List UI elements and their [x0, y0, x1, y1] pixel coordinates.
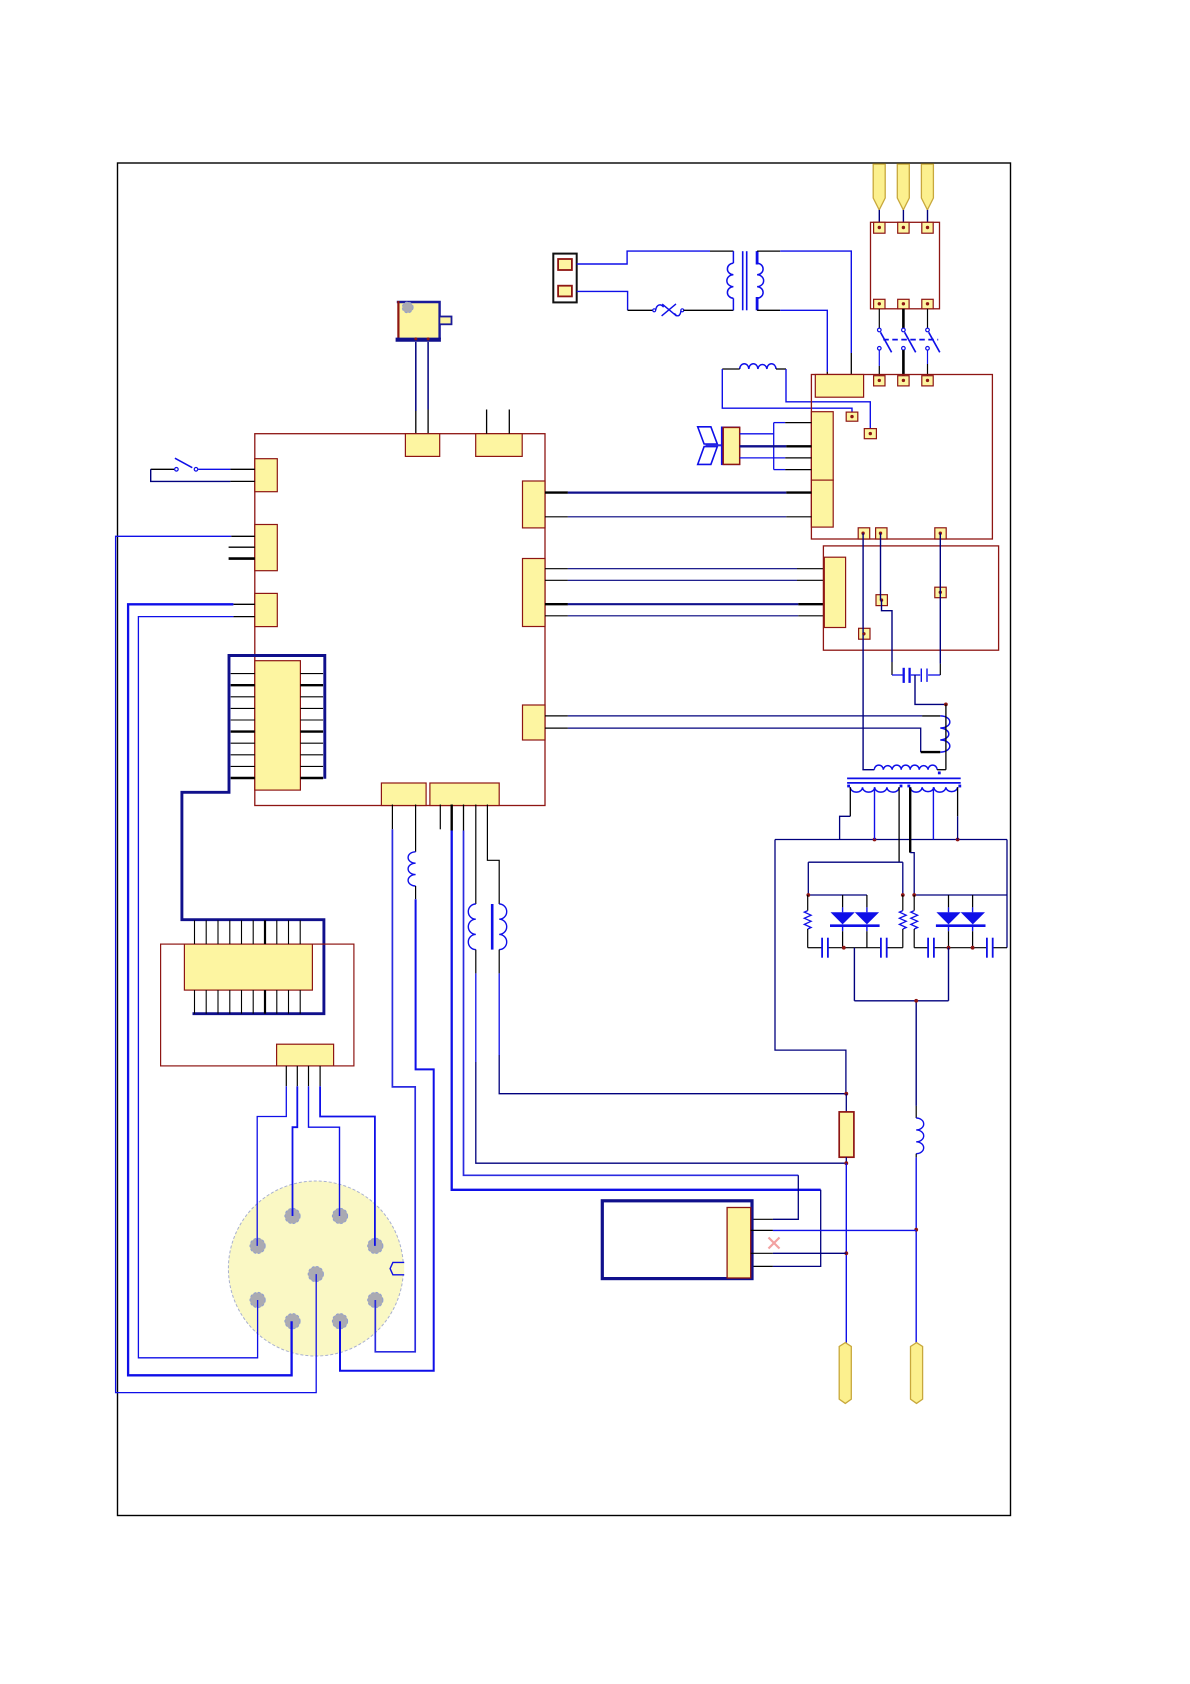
- capacitor C6: [986, 938, 988, 958]
- U1 pad B2: [430, 783, 499, 806]
- U1 pad R2: [523, 559, 546, 627]
- switch S2 poles: [878, 328, 882, 332]
- wire net P2d to resistor R2 bottom: [475, 950, 477, 974]
- connector J1 pin2: [558, 286, 572, 297]
- wire net P2b thick to relay pin4: [451, 805, 453, 831]
- wire C1 to C2: [911, 674, 920, 676]
- junction dot left rail: [806, 893, 810, 897]
- wire S1 to U1 pad L1 top: [198, 468, 230, 470]
- junction dot right bottom rail2: [971, 946, 975, 950]
- capacitor C2: [920, 669, 922, 682]
- capacitor C4: [880, 938, 882, 958]
- capacitor C1: [903, 668, 905, 683]
- U1 pad T2: [476, 434, 523, 457]
- wire T2 sec-right mid tap: [932, 787, 934, 839]
- wire U1 R3 pin2 to choke L3 bottom: [545, 727, 568, 729]
- wires contactor to switch S2: [878, 309, 880, 328]
- wire fan pin3 to board B: [740, 457, 786, 459]
- board B left pad upper: [811, 412, 833, 480]
- relay pin2 wire to E2 net: [751, 1229, 773, 1231]
- blade terminal E2: [911, 1343, 923, 1404]
- wire T1 secondary bottom to board B pad: [757, 309, 780, 311]
- fan connector: [722, 427, 739, 464]
- round connector body: [228, 1181, 403, 1356]
- wires switch S2 to board B pads: [878, 350, 880, 366]
- transformer T2 primary winding: [874, 765, 937, 770]
- choke T3 left winding: [468, 904, 476, 950]
- fan hub: [706, 444, 722, 446]
- transformer T2 primary lead left: [862, 769, 874, 771]
- choke L3: [940, 716, 950, 752]
- choke T3 right winding lead: [487, 805, 499, 905]
- wire board B pad1 to transformer T2 primary: [862, 533, 864, 770]
- board B pin pad P2: [864, 429, 876, 439]
- wire LCD pin1 to round connector upper-left pin: [257, 1086, 286, 1246]
- transformer T2 polarity dots secondary: [847, 785, 850, 788]
- wire net P2c to relay pin1: [463, 805, 465, 831]
- board C pin pad Q3: [859, 628, 870, 639]
- wire M1 pin2 to U1 top pad: [427, 342, 429, 410]
- wire fan branch to board B pin4: [774, 469, 786, 471]
- switch S1 blade: [175, 458, 192, 468]
- junction dot rail left tap: [873, 838, 877, 842]
- relay K1 no-connect cross: [769, 1238, 780, 1249]
- wire LCD pin2 to round connector top-left pin: [293, 1086, 298, 1216]
- relay K1 terminal pad: [727, 1208, 751, 1279]
- ribbon header pins right: [300, 673, 323, 675]
- wire LCD pin4 to round connector upper-right pin: [320, 1086, 375, 1246]
- diac D1 leads: [842, 895, 844, 907]
- snubber left bottom rail: [808, 947, 822, 949]
- board B pin pad P1: [846, 412, 858, 421]
- junction dot T2 primary right: [944, 703, 948, 707]
- wire M1 pin1 to U1 top pad: [415, 342, 417, 411]
- U1 pad L2: [255, 525, 277, 571]
- wire net P2e to resistor R2 top: [498, 950, 500, 974]
- wire U1 R3 pin1 to choke L3 top: [545, 715, 568, 717]
- round connector pins: [285, 1208, 300, 1223]
- wire net P1a to round connector lower-right pin: [375, 829, 415, 1352]
- wire snubber rail horizontal: [775, 839, 1007, 841]
- wire snubber to resistor node: [775, 840, 846, 1094]
- junction dot snubber common: [914, 999, 918, 1003]
- U1 pad B1 pin2 lead: [415, 805, 417, 852]
- wire bus3 pad L3 pin2 to round connector lower-left pin: [233, 616, 254, 618]
- wire U1 R2 pin1 to board C: [545, 568, 568, 570]
- wire T2 sec-left left lead: [849, 787, 851, 816]
- diac D2 leads: [948, 895, 950, 907]
- wire net P1b to round connector bottom-right pin: [415, 886, 417, 899]
- fan blade bottom: [698, 447, 718, 465]
- wire C2 to board C pad Q2: [928, 674, 940, 676]
- wire U1 R2 pin2 to board C: [545, 579, 568, 581]
- wire rail right drop: [1006, 840, 1008, 948]
- main board U1 outline: [255, 434, 545, 806]
- module M1 pin dots: [414, 337, 417, 340]
- transformer T2 polarity dot primary: [938, 772, 941, 775]
- board B outline: [811, 375, 992, 540]
- U1 pad B1: [381, 783, 426, 806]
- diac D1 body: [831, 912, 855, 924]
- board C pin pad Q1: [876, 595, 887, 606]
- choke T3 core bar: [491, 904, 494, 950]
- junction dot right bottom rail: [947, 946, 951, 950]
- wire capacitor midpoint to junction: [915, 675, 946, 704]
- resistor R3 snubber left: [807, 895, 809, 911]
- contactor A1 top pads: [874, 222, 885, 233]
- U1 pad L2 pin3 stub thick: [229, 557, 255, 560]
- board C left pad: [824, 557, 845, 627]
- board B bottom pads: [858, 528, 870, 539]
- wire J1 pin2 to fuse: [577, 291, 628, 310]
- junction dot board C pad Q3: [863, 633, 865, 635]
- switch S1 left wire: [151, 468, 175, 470]
- wire L2 left to pin pad P1: [722, 369, 852, 414]
- blade terminal E3: [873, 164, 885, 210]
- wires blades to contactor A1: [878, 210, 880, 222]
- relay pin3 wire to E1 net: [751, 1252, 773, 1254]
- connector J1 pin1: [558, 259, 572, 270]
- wire junction to T2 primary right: [945, 704, 947, 769]
- wire T2 sec-right right lead: [957, 787, 959, 816]
- relay K1 outline: [602, 1201, 752, 1279]
- board B top pad: [815, 375, 863, 398]
- contactor A1 bottom pads: [874, 299, 885, 309]
- wire resistor bottom to blade E1: [845, 1163, 847, 1342]
- wire S1 bottom return: [151, 469, 231, 481]
- wire board C pad Q1 to capacitor C1: [882, 600, 893, 662]
- board C pin pad Q2: [935, 587, 946, 598]
- choke T3 left winding lead: [475, 805, 477, 905]
- resistor R5 snubber right: [913, 895, 915, 911]
- connector J1 outline: [553, 254, 576, 303]
- U1 pad B2 stub pin: [439, 805, 441, 830]
- transformer T1 secondary: [756, 251, 759, 264]
- U1 pad L2 pin2 stub: [229, 546, 255, 548]
- diac D2 body: [936, 912, 960, 924]
- transformer T2 core: [847, 777, 961, 779]
- wire T2 sec-left mid tap: [874, 787, 876, 839]
- page border frame: [118, 163, 1011, 1516]
- U1 ribbon header: [255, 661, 301, 790]
- junction dot relay pin3 node: [844, 1251, 848, 1255]
- LCD pad pins: [285, 1066, 287, 1086]
- wire L2 right to pin pad P2: [786, 369, 870, 430]
- junction dot resistor R4 top: [901, 893, 905, 897]
- U1 pad R1: [523, 481, 546, 528]
- snubber right top rail: [914, 894, 1007, 896]
- module M1 side tab: [439, 317, 451, 325]
- fuse F1: [653, 309, 656, 312]
- wire U1 R2 pin3 thick to board C: [545, 603, 568, 605]
- U1 pad L1: [255, 459, 277, 492]
- LCD display module: [184, 944, 312, 990]
- capacitor C3: [821, 938, 823, 958]
- U1 pad T2 stub pins: [486, 410, 488, 434]
- inductor L2: [740, 364, 776, 369]
- ribbon cable outline: [182, 656, 325, 1014]
- blade terminal E1: [839, 1343, 851, 1404]
- snubber right bottom rail: [914, 947, 927, 949]
- wire bus2 pad L3 pin1 to round connector bottom-left pin: [233, 603, 254, 605]
- junction dot left bottom rail: [842, 946, 846, 950]
- junction dot right rail: [912, 893, 916, 897]
- wire sec-left node horizontal: [808, 861, 903, 863]
- wire fuse to T1 primary bottom: [684, 309, 734, 311]
- switch S2 linkage dashed: [883, 339, 938, 341]
- module M1 body: [397, 301, 439, 341]
- wire U1 R2 pin4 to board C: [545, 615, 568, 617]
- U1 pad B1 pin1 stub: [391, 805, 393, 830]
- inductor L1: [408, 852, 416, 886]
- U1 pad L3: [255, 593, 277, 626]
- wire U1 R1 pin2 to board B: [545, 516, 568, 518]
- wire fan pin2 thick to board B: [740, 445, 787, 447]
- board B left pad lower: [811, 480, 833, 527]
- transformer T2 secondary winding left: [850, 787, 899, 792]
- board C outline: [823, 546, 998, 650]
- wire T2 sec-right left lead: [909, 787, 911, 852]
- junction dot resistor top: [844, 1092, 848, 1096]
- junction dot rail right tap: [956, 838, 960, 842]
- U1 pad R3: [523, 705, 546, 740]
- wire snubber bottoms to common junction: [853, 948, 855, 1001]
- resistor R2: [845, 1094, 847, 1112]
- wire T2 sec-left right lead: [898, 787, 900, 862]
- inductor L4: [916, 1118, 924, 1154]
- wire transformer junction to blade E2: [915, 1001, 917, 1106]
- U1 pad T1: [405, 434, 439, 457]
- snubber left top rail: [808, 894, 867, 896]
- ribbon header pins left: [231, 673, 255, 675]
- wire LCD pin3 to round connector top-right pin: [309, 1086, 340, 1216]
- junction dot resistor bottom: [844, 1161, 848, 1165]
- switch S1 contact circles: [175, 468, 179, 472]
- LCD bottom pins: [194, 990, 196, 1014]
- fan blade top: [698, 427, 718, 444]
- wire fan pin1 to board B: [740, 433, 774, 435]
- wire T1 secondary top to board B pad: [757, 250, 780, 252]
- module M1 lens circle: [402, 302, 413, 313]
- blade terminal E4: [897, 164, 909, 210]
- wire U1 R1 pin1 thick to board B: [545, 491, 568, 493]
- capacitor C5: [927, 938, 929, 958]
- round connector key notch: [390, 1262, 404, 1274]
- blade terminal E5: [921, 164, 933, 210]
- LCD board bottom pad: [277, 1044, 334, 1066]
- choke T3 right winding: [499, 904, 507, 950]
- LCD board outline: [161, 944, 354, 1066]
- resistor R4 snubber left2: [902, 895, 904, 911]
- junction dot relay pin2 node: [914, 1228, 918, 1232]
- LCD top pins: [194, 920, 196, 944]
- board B top pin pads: [874, 376, 885, 386]
- wire board B pad2 to board C pad Q1: [880, 533, 882, 600]
- wire J1 pin1 to T1 primary top: [577, 251, 710, 264]
- contactor A1 outline: [871, 222, 940, 308]
- wire bus1 pad L2 pin1 to round connector center pin: [231, 535, 255, 537]
- transformer T1 primary: [732, 251, 734, 263]
- transformer T1 core: [742, 251, 744, 310]
- transformer T2 secondary winding right: [910, 787, 957, 792]
